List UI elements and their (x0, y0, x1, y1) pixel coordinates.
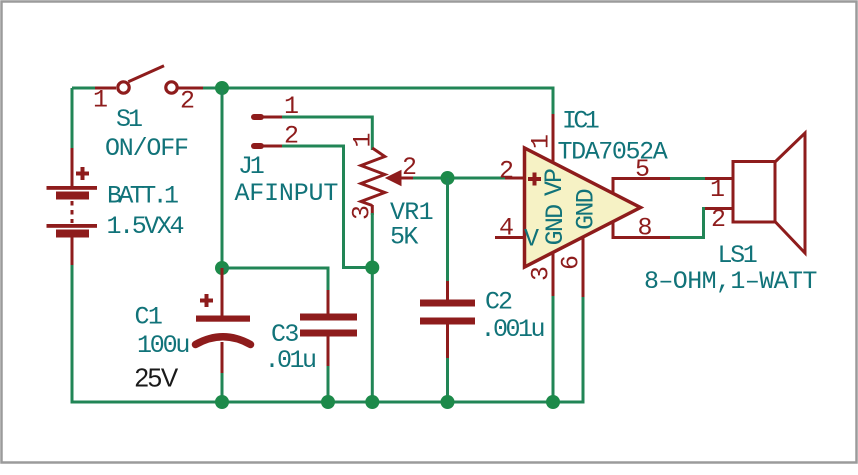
pin 6 label IC1 (557, 255, 586, 270)
pin 3 label VR1 (348, 205, 377, 220)
wire (72, 87, 97, 90)
svg-text:ON/OFF: ON/OFF (105, 134, 188, 163)
pin 1 label VR1 (349, 132, 378, 147)
node top rail junction (215, 81, 229, 95)
svg-text:.001u: .001u (481, 315, 544, 344)
svg-text:1.5VX4: 1.5VX4 (107, 212, 184, 241)
wire (71, 88, 74, 150)
wire (282, 146, 368, 268)
pin 3 label IC1 (527, 266, 556, 281)
value label TDA7052A (558, 138, 668, 167)
value label AFINPUT (235, 179, 339, 208)
value label .001u (481, 315, 544, 344)
potentiometer VR1 (361, 148, 415, 215)
svg-text:4: 4 (499, 214, 514, 243)
svg-text:6: 6 (557, 255, 586, 270)
svg-text:2: 2 (499, 157, 514, 186)
wire (670, 209, 707, 238)
pin 1 label IC1 (527, 134, 556, 149)
svg-text:VP: VP (540, 169, 569, 196)
label S1 (116, 105, 142, 134)
node ground C3 (321, 395, 335, 409)
svg-text:GND: GND (572, 189, 601, 229)
svg-text:C1: C1 (135, 303, 162, 332)
value label 5K (390, 223, 418, 252)
value label 1.5VX4 (107, 212, 184, 241)
pin 2 label LS1 (711, 205, 726, 234)
pin 1 label LS1 (710, 175, 725, 204)
svg-text:2: 2 (180, 87, 195, 116)
wire (72, 265, 583, 402)
node ground VR1 (365, 395, 379, 409)
svg-text:AFINPUT: AFINPUT (235, 179, 339, 208)
svg-text:V: V (524, 225, 539, 254)
svg-text:LS1: LS1 (718, 241, 757, 270)
wire (222, 268, 328, 292)
svg-text:1: 1 (349, 132, 378, 147)
value label ON/OFF (105, 134, 188, 163)
pin VP label (540, 169, 569, 196)
wire (582, 297, 585, 404)
pin V label (524, 225, 539, 254)
svg-text:TDA7052A: TDA7052A (558, 138, 668, 167)
svg-text:3: 3 (527, 266, 556, 281)
node C1 top junction (215, 261, 229, 275)
wire (327, 366, 330, 402)
wire (413, 177, 505, 180)
svg-text:5K: 5K (390, 223, 418, 252)
value label .01u (265, 346, 316, 375)
label VR1 (390, 198, 433, 227)
label C2 (485, 288, 512, 317)
label C1 (135, 303, 162, 332)
svg-text:GND: GND (541, 205, 570, 245)
wire (446, 358, 449, 402)
value label 8-OHM,1-WATT (644, 267, 817, 296)
value label 100u (137, 331, 188, 360)
svg-text:8–OHM,1–WATT: 8–OHM,1–WATT (644, 267, 817, 296)
svg-text:C2: C2 (485, 288, 512, 317)
op-amp IC1 (495, 114, 672, 299)
value label 25V (135, 363, 179, 393)
label J1 (238, 152, 264, 181)
svg-text:1: 1 (93, 86, 108, 115)
wire (371, 213, 374, 402)
node ground C2 (441, 395, 455, 409)
svg-text:2: 2 (711, 205, 726, 234)
wire (705, 207, 733, 210)
capacitor C3 (300, 290, 357, 368)
label IC1 (562, 107, 599, 136)
pin 1 label S1 (93, 86, 108, 115)
svg-text:.01u: .01u (265, 346, 316, 375)
node ground IC pin3 (546, 395, 560, 409)
svg-text:1: 1 (527, 134, 556, 149)
switch S1 (95, 66, 204, 93)
wire (670, 177, 707, 180)
node wiper junction (441, 171, 455, 185)
wire (203, 88, 553, 116)
label BATT.1 (107, 182, 178, 211)
pin 8 label IC1 (638, 214, 653, 243)
pin 2 label S1 (180, 87, 195, 116)
pin 1 label J1 (284, 92, 299, 121)
wire (221, 89, 224, 268)
wire (446, 178, 449, 283)
svg-text:J1: J1 (238, 152, 264, 181)
pin 2 label J1 (284, 122, 299, 151)
svg-text:8: 8 (638, 214, 653, 243)
pin 5 label IC1 (635, 155, 650, 184)
svg-text:25V: 25V (135, 363, 179, 393)
speaker LS1 (733, 133, 805, 253)
pin 2 label IC1 (499, 157, 514, 186)
wire (705, 177, 733, 180)
node VR1 bottom junction (365, 261, 379, 275)
svg-text:S1: S1 (116, 105, 142, 134)
pin 2 label VR1 (402, 153, 417, 182)
connector J1 (254, 117, 284, 146)
pin GND label right (572, 189, 601, 229)
node ground C1 (215, 395, 229, 409)
capacitor C1 (196, 268, 251, 375)
wire (552, 296, 555, 402)
svg-text:1: 1 (710, 175, 725, 204)
battery BATT.1 (47, 148, 98, 267)
pin 4 label IC1 (499, 214, 514, 243)
wire (221, 373, 224, 402)
svg-text:BATT.1: BATT.1 (107, 182, 178, 211)
label LS1 (718, 241, 757, 270)
wire (282, 117, 372, 150)
capacitor C2 (420, 281, 475, 360)
pin GND label left (541, 205, 570, 245)
svg-text:100u: 100u (137, 331, 188, 360)
svg-text:C3: C3 (271, 320, 298, 349)
svg-text:IC1: IC1 (562, 107, 599, 136)
label C3 (271, 320, 298, 349)
